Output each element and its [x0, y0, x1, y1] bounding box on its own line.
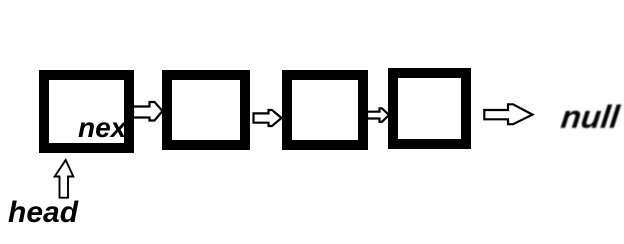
arrow 1: box1 to box2: [133, 102, 163, 121]
arrow 4: to null: [484, 104, 532, 124]
node box 3: [282, 70, 368, 150]
label head: [8, 198, 78, 228]
arrow 2: box2 to box3: [254, 110, 282, 126]
label next: [78, 112, 134, 142]
node box 4: [388, 68, 471, 149]
label null: [559, 101, 621, 134]
arrow 3: box3 to box4: [367, 108, 389, 121]
node box 1: [39, 70, 134, 153]
node box 2: [162, 70, 250, 150]
head up-arrow: [55, 160, 74, 198]
